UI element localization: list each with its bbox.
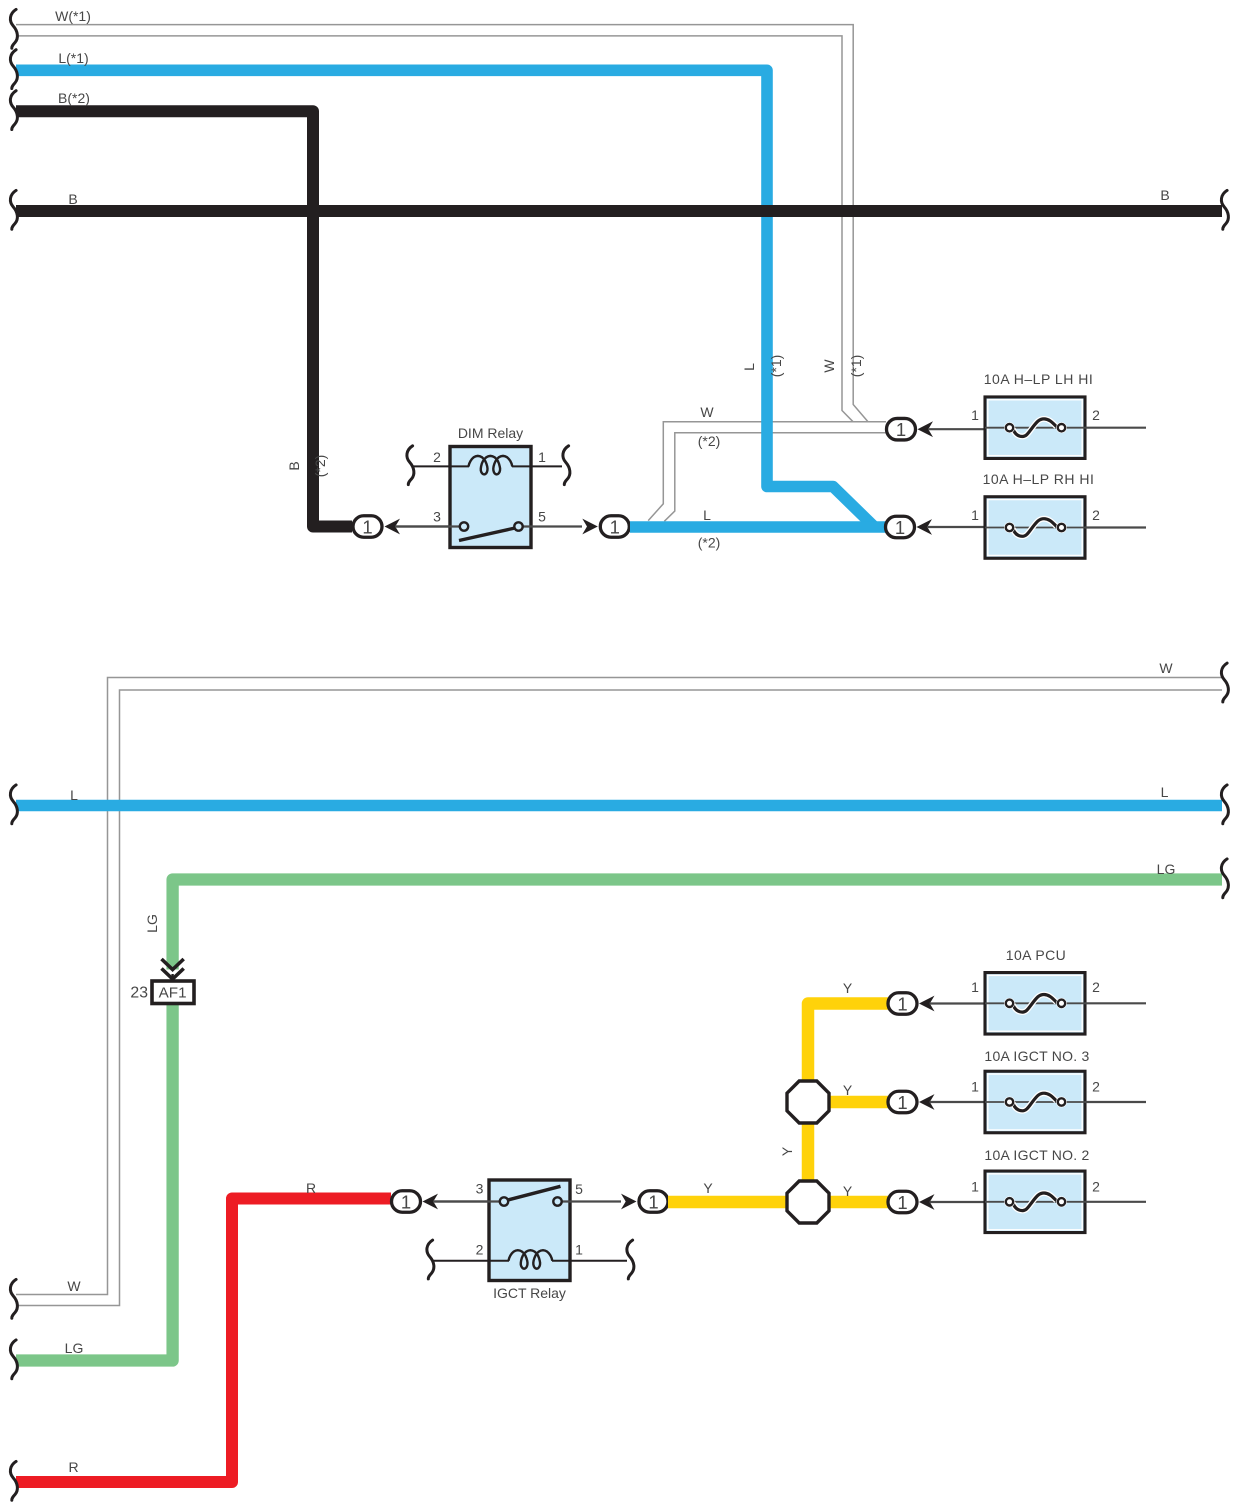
connector 1 at NO.2 row: [888, 1191, 985, 1213]
svg-text:5: 5: [538, 509, 546, 525]
wire W(*1) top horizontal then down, white wire double outline: [16, 25, 868, 422]
fuse 10A IGCT NO. 3: [971, 1048, 1146, 1133]
svg-text:2: 2: [1092, 979, 1100, 995]
wire Y from relay to junction: [668, 1196, 790, 1209]
connector 1 at NO.3 row: [888, 1091, 985, 1113]
svg-text:10A H–LP LH HI: 10A H–LP LH HI: [984, 371, 1093, 387]
svg-text:IGCT Relay: IGCT Relay: [493, 1285, 566, 1301]
wire L bottom blue: [16, 800, 1222, 812]
svg-text:LG: LG: [144, 914, 160, 933]
svg-text:B: B: [286, 461, 302, 470]
svg-text:10A IGCT NO. 2: 10A IGCT NO. 2: [984, 1147, 1089, 1163]
junction octagon upper: [787, 1081, 829, 1123]
break R left: [10, 1461, 17, 1500]
switch line pins 3-5: [433, 1200, 500, 1202]
svg-text:W: W: [821, 359, 837, 373]
svg-text:W: W: [700, 404, 714, 420]
svg-text:1: 1: [575, 1242, 583, 1258]
svg-text:LG: LG: [1157, 861, 1176, 877]
svg-text:B: B: [68, 191, 77, 207]
svg-text:Y: Y: [779, 1146, 795, 1156]
connector AF1 box: [152, 981, 194, 1004]
wire Y vertical between junctions: [802, 1120, 815, 1185]
svg-text:(*1): (*1): [768, 355, 784, 378]
svg-text:AF1: AF1: [159, 984, 187, 1001]
svg-text:1: 1: [971, 407, 979, 423]
svg-text:W(*1): W(*1): [55, 8, 91, 24]
svg-text:Y: Y: [843, 1082, 853, 1098]
svg-text:2: 2: [1092, 407, 1100, 423]
wire Y junction to NO.2 connector: [826, 1196, 888, 1209]
svg-text:3: 3: [476, 1181, 484, 1197]
svg-text:L: L: [703, 507, 711, 523]
svg-text:1: 1: [971, 1179, 979, 1195]
svg-text:R: R: [68, 1459, 78, 1475]
wire Y junction2 to NO.3 connector: [826, 1096, 888, 1109]
svg-text:1: 1: [971, 979, 979, 995]
wire B(*2) black: [16, 111, 352, 526]
svg-text:10A H–LP RH HI: 10A H–LP RH HI: [983, 471, 1095, 487]
svg-text:LG: LG: [65, 1340, 84, 1356]
svg-text:1: 1: [971, 1079, 979, 1095]
svg-text:W: W: [1159, 660, 1173, 676]
chevron double arrow into AF1: [162, 959, 184, 982]
coil line pins 2-1: [413, 465, 469, 467]
svg-text:2: 2: [1092, 1179, 1100, 1195]
svg-text:2: 2: [433, 449, 441, 465]
wire L(*1) blue: [16, 70, 875, 527]
connector 1 left of DIM relay: [353, 516, 450, 538]
connector 1 at W row before fuse: [887, 418, 986, 440]
svg-text:W: W: [67, 1278, 81, 1294]
svg-text:Y: Y: [843, 1183, 853, 1199]
svg-text:3: 3: [433, 509, 441, 525]
break L left bottom: [10, 785, 17, 824]
svg-text:DIM Relay: DIM Relay: [458, 425, 523, 441]
break LG right: [1221, 859, 1228, 898]
svg-text:(*2): (*2): [698, 535, 721, 551]
connector 1 right of IGCT relay: [621, 1191, 668, 1213]
svg-text:(*2): (*2): [312, 455, 328, 478]
svg-text:R: R: [306, 1180, 316, 1196]
svg-text:(*1): (*1): [848, 355, 864, 378]
wire LG green: [173, 880, 1222, 970]
svg-text:2: 2: [476, 1242, 484, 1258]
svg-text:Y: Y: [843, 980, 853, 996]
break W(*1) left: [10, 9, 17, 48]
break coil left: [427, 1240, 434, 1279]
svg-text:B(*2): B(*2): [58, 90, 90, 106]
break coil right: [563, 446, 570, 485]
svg-text:1: 1: [538, 449, 546, 465]
svg-text:B: B: [1160, 187, 1169, 203]
svg-text:L(*1): L(*1): [58, 50, 88, 66]
svg-text:2: 2: [1092, 1079, 1100, 1095]
wire R red: [16, 1199, 391, 1483]
break W left bottom: [10, 1279, 17, 1318]
connector 1 right of DIM relay: [582, 516, 629, 538]
svg-text:23: 23: [130, 985, 148, 1002]
svg-text:10A IGCT NO. 3: 10A IGCT NO. 3: [984, 1048, 1089, 1064]
fuse 10A IGCT NO. 2: [971, 1147, 1146, 1233]
svg-text:L: L: [741, 363, 757, 371]
wire W(*2) white double outline from junction to fuse: [648, 422, 886, 522]
svg-text:10A PCU: 10A PCU: [1006, 947, 1066, 963]
break B right: [1221, 190, 1228, 229]
connector 1 at PCU row: [888, 993, 985, 1015]
wire B black full width: [16, 205, 1222, 217]
coil line pins 2-1: [433, 1260, 509, 1262]
connector 1 at L row before fuse: [886, 516, 986, 538]
switch line and contacts: [395, 525, 460, 527]
break L right bottom: [1221, 785, 1228, 824]
connector 1 left of IGCT relay: [392, 1191, 490, 1213]
wire L(*2) blue horizontal: [630, 521, 886, 533]
wire Y up to PCU row: [808, 1004, 888, 1086]
fuse 10A H-LP LH HI: [971, 371, 1146, 458]
break LG left bottom: [10, 1340, 17, 1379]
break W right: [1221, 663, 1228, 702]
break coil left: [407, 446, 414, 485]
svg-text:1: 1: [971, 507, 979, 523]
relay IGCT Relay: [427, 1180, 634, 1301]
svg-text:(*2): (*2): [698, 433, 721, 449]
svg-text:5: 5: [575, 1181, 583, 1197]
break B left: [10, 190, 17, 229]
break coil right: [627, 1240, 634, 1279]
fuse 10A PCU: [971, 947, 1146, 1034]
break L(*1) left: [10, 50, 17, 89]
svg-text:2: 2: [1092, 507, 1100, 523]
svg-text:L: L: [70, 787, 78, 803]
junction octagon lower: [787, 1181, 829, 1223]
wire W bottom section white double outline: [16, 678, 1222, 1306]
svg-text:Y: Y: [703, 1180, 713, 1196]
svg-text:L: L: [1161, 784, 1169, 800]
break B(*2) left: [10, 91, 17, 130]
relay DIM Relay: [395, 425, 582, 548]
fuse 10A H-LP RH HI: [971, 471, 1146, 558]
